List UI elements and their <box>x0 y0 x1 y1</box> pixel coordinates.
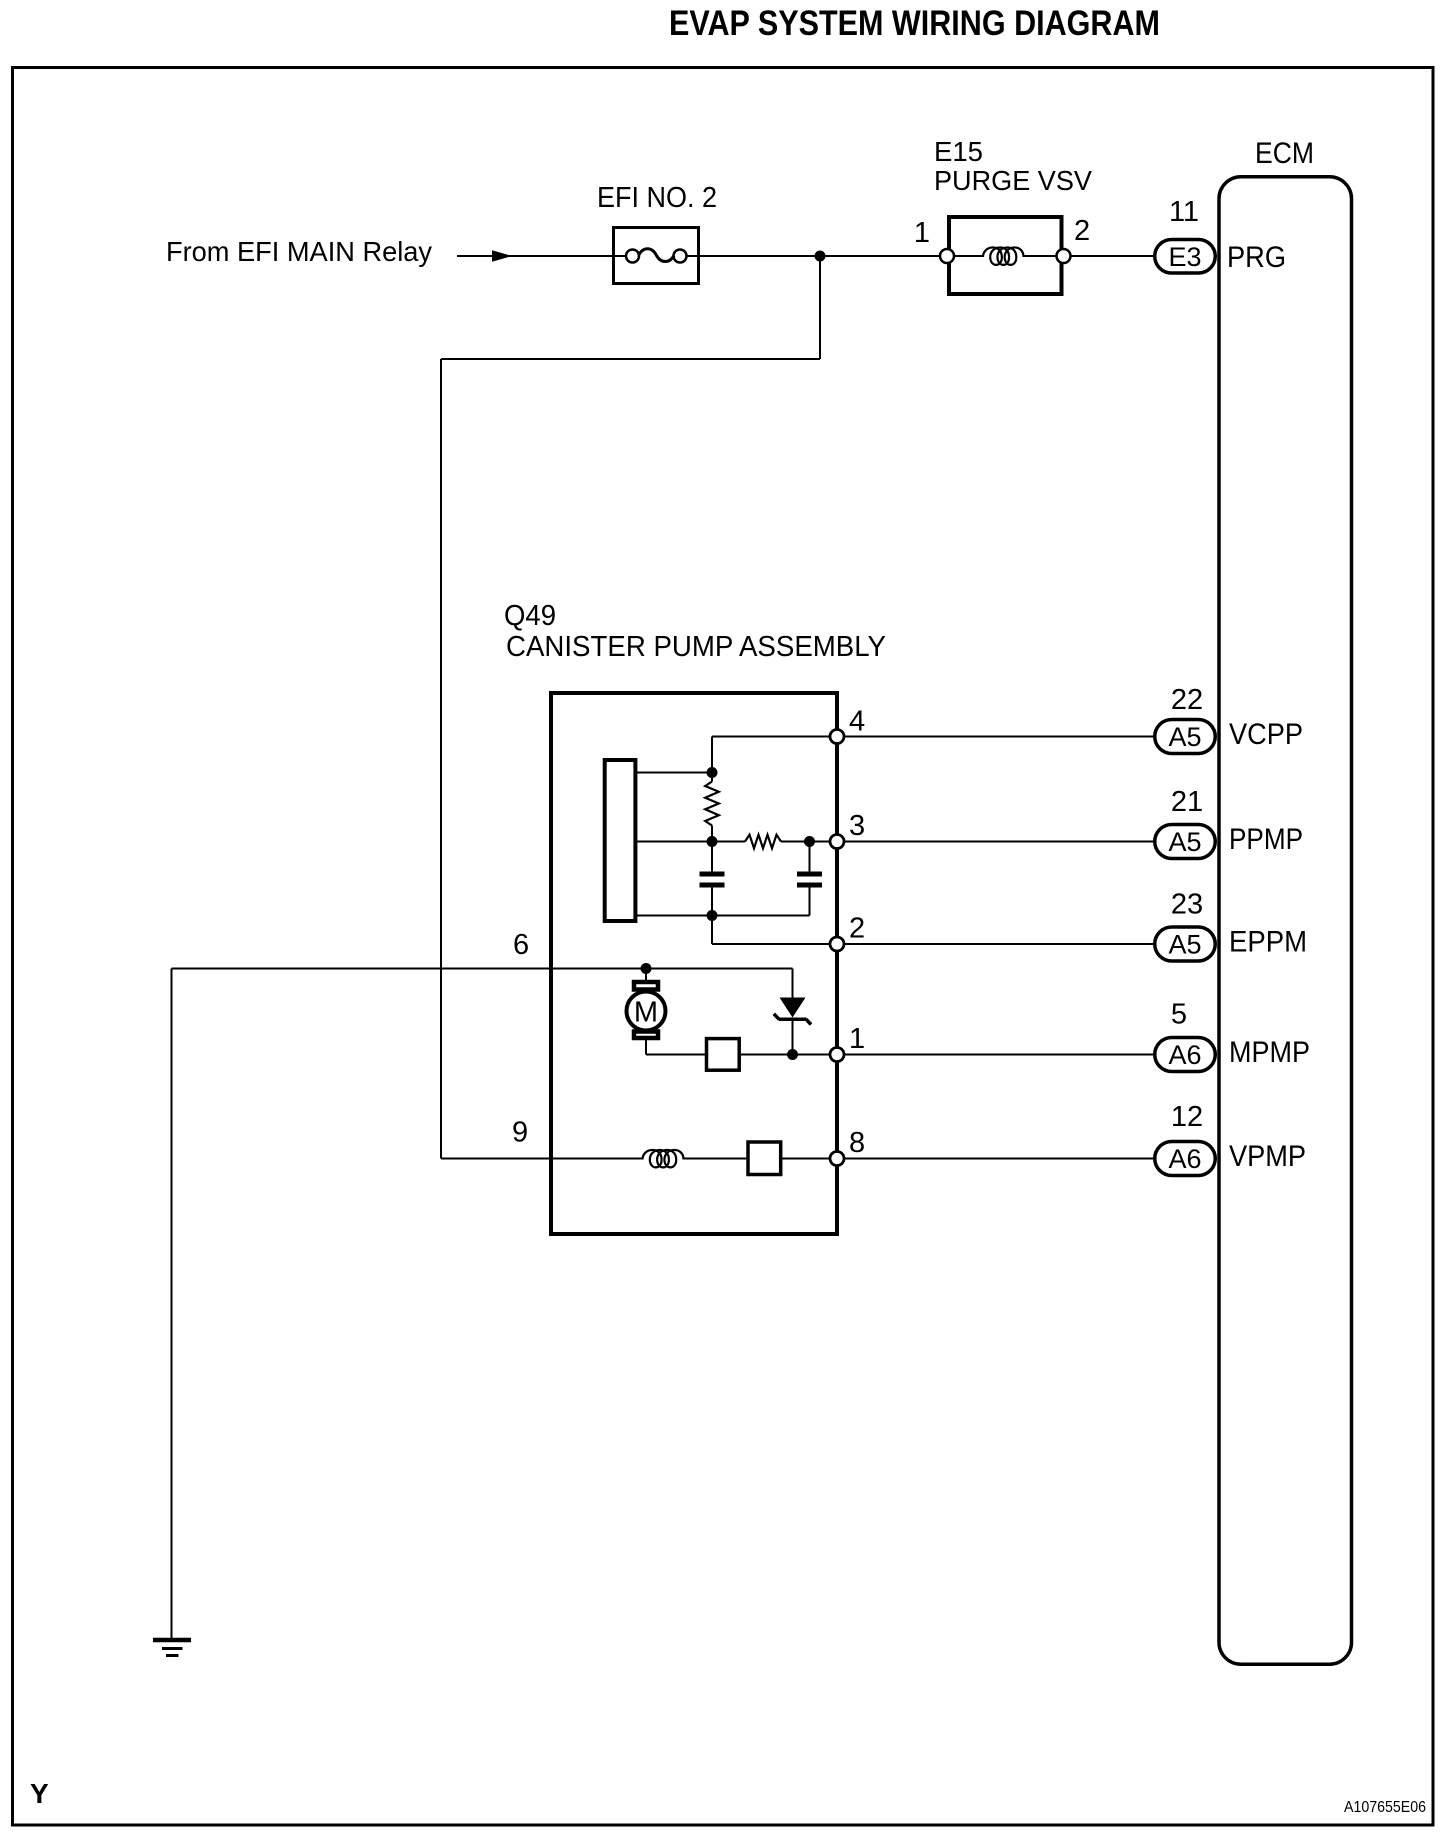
svg-text:1: 1 <box>849 1023 865 1055</box>
wire component to pin 8 <box>781 1158 837 1160</box>
zener diode lead top <box>792 969 794 999</box>
wire pin 2 horizontal <box>712 943 837 945</box>
motor M top brush <box>634 982 658 990</box>
svg-text:CANISTER PUMP ASSEMBLY: CANISTER PUMP ASSEMBLY <box>506 631 886 663</box>
connector A5 oval (VCPP) <box>1155 720 1216 754</box>
wire resistor to middle node <box>711 826 713 872</box>
wire pin 4 horizontal <box>712 736 837 738</box>
wire coil to component box <box>684 1158 749 1160</box>
svg-text:PURGE VSV: PURGE VSV <box>934 165 1092 196</box>
wire from EFI MAIN relay to fuse <box>457 255 630 257</box>
wire pin to ECM at y=944 <box>837 943 1155 945</box>
svg-text:A5: A5 <box>1168 722 1201 752</box>
ground symbol <box>153 1638 191 1643</box>
svg-text:A5: A5 <box>1168 827 1201 857</box>
svg-text:3: 3 <box>849 810 865 842</box>
wire pin to ECM at y=841.5 <box>837 841 1155 843</box>
ECM box <box>1219 177 1352 1665</box>
wire pin 9 line left <box>441 1158 643 1160</box>
capacitor C2 lead top <box>809 842 811 872</box>
connector A6 oval (VPMP) <box>1155 1142 1216 1176</box>
pin 1 circle on Q49 box <box>830 1048 844 1062</box>
junction node right of resistor <box>804 836 815 847</box>
svg-text:VCPP: VCPP <box>1229 718 1303 751</box>
component box on VPMP line <box>748 1142 781 1175</box>
svg-text:PRG: PRG <box>1227 241 1286 274</box>
motor M circle <box>627 992 666 1031</box>
junction node bottom rail <box>707 910 718 921</box>
zener diode lead bottom <box>792 1019 794 1054</box>
arrowhead on relay wire <box>492 250 512 262</box>
svg-text:EFI NO. 2: EFI NO. 2 <box>597 182 717 214</box>
svg-text:5: 5 <box>1171 999 1187 1031</box>
wire node down to pin 2 line <box>711 916 713 945</box>
svg-text:11: 11 <box>1169 196 1199 228</box>
junction node sensor top <box>707 767 718 778</box>
svg-text:MPMP: MPMP <box>1229 1036 1310 1069</box>
svg-text:Q49: Q49 <box>504 600 556 632</box>
inductor coil L1 <box>643 1150 684 1167</box>
svg-text:2: 2 <box>1074 215 1090 247</box>
zener diode D1 triangle <box>780 998 806 1018</box>
wire resistor to pin 3 <box>781 841 837 843</box>
capacitor C1 lead bottom <box>711 888 713 916</box>
svg-text:PPMP: PPMP <box>1229 823 1303 856</box>
resistor R2 horizontal <box>745 835 781 849</box>
connector A5 oval (PPMP) <box>1155 825 1216 859</box>
svg-text:8: 8 <box>849 1127 865 1159</box>
capacitor C1 lead top <box>711 842 713 872</box>
svg-text:M: M <box>634 997 658 1029</box>
junction node middle <box>707 836 718 847</box>
svg-text:From EFI MAIN Relay: From EFI MAIN Relay <box>166 236 432 267</box>
VSV solenoid coil <box>983 247 1024 264</box>
junction node zener bottom <box>787 1049 798 1060</box>
fuse EFI NO. 2 box <box>614 228 699 284</box>
svg-text:A5: A5 <box>1168 930 1201 960</box>
capacitor C1 plates <box>700 872 725 877</box>
wire sensor middle to node <box>635 841 745 843</box>
zener cathode tail right <box>806 1019 811 1024</box>
svg-text:9: 9 <box>512 1117 528 1149</box>
canister pump assembly box Q49 <box>551 693 837 1234</box>
connector A5 oval (EPPM) <box>1155 927 1216 961</box>
capacitor C2 plates <box>797 872 822 877</box>
svg-text:A6: A6 <box>1168 1144 1201 1174</box>
wire junction down <box>819 256 821 359</box>
connector A6 oval (MPMP) <box>1155 1038 1216 1072</box>
component box on MPMP line <box>707 1039 740 1071</box>
wire sensor top to node <box>635 772 712 774</box>
fuse terminal circle right <box>674 250 687 263</box>
purge VSV E15 box <box>949 217 1062 294</box>
wire component to pin 1 <box>741 1054 837 1056</box>
motor M lead bottom <box>645 1040 647 1055</box>
svg-text:EPPM: EPPM <box>1229 926 1307 959</box>
wire ground drop <box>171 969 173 1640</box>
fuse element wavy link <box>639 249 675 262</box>
svg-text:22: 22 <box>1171 684 1203 716</box>
wire pin to ECM at y=1054.5 <box>837 1054 1155 1056</box>
pin 2 circle on Q49 box <box>830 937 844 951</box>
junction node after fuse <box>815 251 826 262</box>
motor M bottom brush <box>634 1032 658 1039</box>
fuse terminal circle left <box>626 250 639 263</box>
resistor R1 vertical <box>705 782 719 826</box>
wire bottom rail <box>635 915 810 917</box>
svg-text:6: 6 <box>513 929 529 961</box>
pin 4 circle on Q49 box <box>830 730 844 744</box>
wire motor to component box <box>646 1054 706 1056</box>
svg-text:VPMP: VPMP <box>1229 1140 1306 1173</box>
wire pin to ECM at y=736.5 <box>837 736 1155 738</box>
wire long vertical to pin 9 line <box>440 359 442 1159</box>
svg-text:4: 4 <box>849 706 865 738</box>
svg-text:EVAP SYSTEM WIRING DIAGRAM: EVAP SYSTEM WIRING DIAGRAM <box>669 4 1160 43</box>
svg-text:2: 2 <box>849 913 865 945</box>
wire pin 6 line <box>172 968 793 970</box>
VSV pin 1 circle <box>940 249 954 263</box>
svg-text:23: 23 <box>1171 889 1203 921</box>
svg-text:A107655E06: A107655E06 <box>1344 1799 1426 1816</box>
svg-text:E3: E3 <box>1168 242 1201 272</box>
pin 8 circle on Q49 box <box>830 1152 844 1166</box>
svg-text:A6: A6 <box>1168 1040 1201 1070</box>
junction node motor top <box>641 963 652 974</box>
svg-text:E15: E15 <box>934 136 983 167</box>
zener diode D1 cathode bar <box>779 1017 807 1021</box>
wire pin 4 vertical <box>711 737 713 782</box>
wire horizontal to left <box>441 358 820 360</box>
capacitor C2 lead bottom <box>809 888 811 916</box>
zener cathode tail left <box>774 1014 779 1019</box>
connector E3 oval <box>1155 240 1216 274</box>
svg-text:Y: Y <box>30 1778 49 1809</box>
wire inside VSV coil to pin 2 <box>1023 255 1155 257</box>
svg-text:12: 12 <box>1171 1101 1203 1133</box>
svg-text:21: 21 <box>1171 786 1203 818</box>
VSV pin 2 circle <box>1057 249 1071 263</box>
svg-text:1: 1 <box>914 217 930 249</box>
svg-text:ECM: ECM <box>1255 137 1314 170</box>
wire fuse to VSV pin 1 <box>683 255 984 257</box>
sensor element rectangle <box>605 760 636 921</box>
wire pin to ECM at y=1158.5 <box>837 1158 1155 1160</box>
pin 3 circle on Q49 box <box>830 835 844 849</box>
motor M lead top <box>645 969 647 983</box>
